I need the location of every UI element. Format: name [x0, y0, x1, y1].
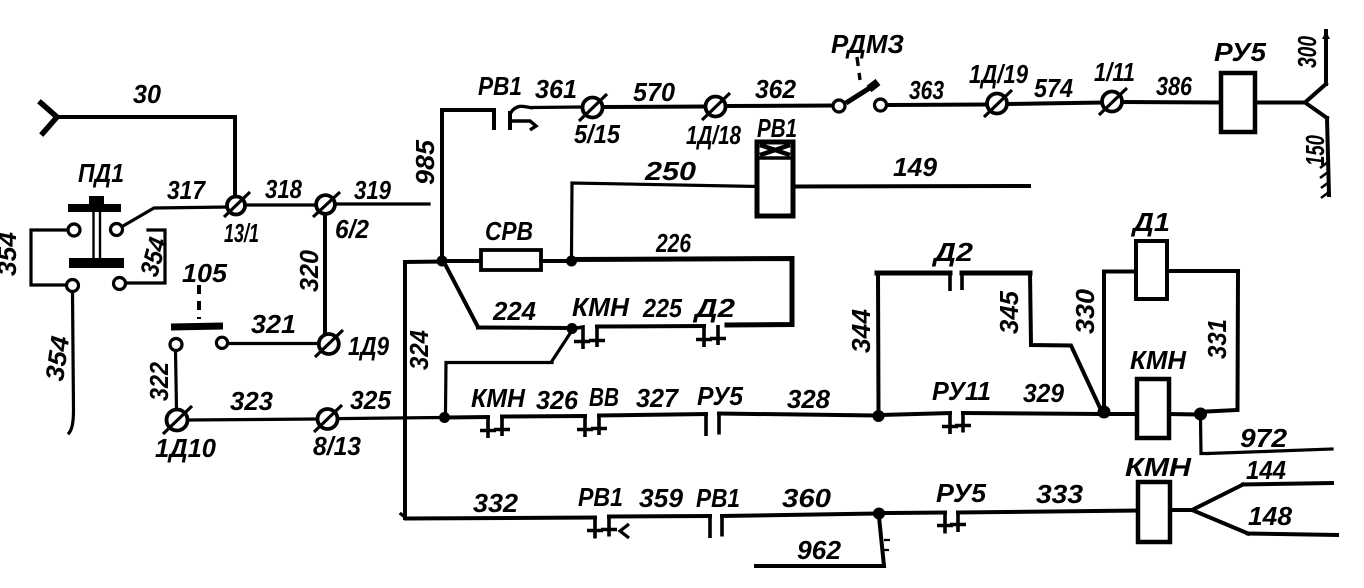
- relay Д1 box: [1136, 241, 1167, 299]
- label Д2 bracket: [932, 237, 974, 267]
- label wire 327: [636, 383, 679, 413]
- label wire 326: [536, 385, 579, 415]
- label wire 333: [1036, 479, 1084, 509]
- wire 300: [1322, 31, 1330, 84]
- label wire 319: [354, 175, 391, 205]
- label wire 322: [144, 362, 174, 401]
- switch 105 dashed link: [197, 285, 201, 319]
- svg-text:322: 322: [144, 362, 174, 401]
- wire 324 vertical: [405, 262, 442, 519]
- wire 317: [123, 207, 227, 226]
- label wire 300: [1292, 36, 1322, 68]
- label terminal 1/11: [1094, 57, 1135, 87]
- wire 149: [793, 184, 1029, 189]
- label wire 329: [1023, 378, 1065, 408]
- label wire 224: [492, 296, 537, 326]
- label wire 149: [893, 152, 938, 182]
- svg-text:РУ11: РУ11: [932, 376, 991, 406]
- terminal 8/13: [314, 405, 342, 432]
- label wire 344: [846, 308, 876, 353]
- pin 105 right: [216, 337, 227, 348]
- label wire 330: [1070, 288, 1100, 334]
- label wire 359: [639, 483, 684, 513]
- wire 322: [176, 351, 177, 409]
- wire 362: [726, 104, 833, 109]
- svg-text:РУ5: РУ5: [1214, 37, 1267, 67]
- svg-text:РДМЗ: РДМЗ: [831, 29, 904, 59]
- svg-text:КМН: КМН: [471, 383, 526, 413]
- label terminal 1Д10: [155, 433, 217, 463]
- wire 972: [1201, 419, 1333, 454]
- wire 226 loop: [572, 259, 792, 326]
- svg-text:326: 326: [536, 385, 579, 415]
- contact КМН 326: [480, 416, 510, 438]
- label РВ1 row4 second: [696, 483, 740, 513]
- resistor СРВ: [481, 250, 541, 270]
- switch ПД1 (knife symbol): [68, 196, 124, 268]
- svg-text:972: 972: [1240, 423, 1288, 453]
- junction node 962/360: [873, 508, 885, 520]
- svg-text:Д1: Д1: [1131, 207, 1170, 237]
- node fork 300/150: [1305, 84, 1327, 118]
- label ПД1: [78, 158, 124, 188]
- wire 330 vertical: [1102, 272, 1106, 411]
- junction node 972: [1194, 408, 1207, 421]
- wire 344 vertical: [876, 273, 881, 411]
- pin ПД1 upper-right: [111, 224, 123, 236]
- label wire 317: [167, 175, 206, 205]
- svg-text:РУ5: РУ5: [936, 478, 987, 508]
- svg-text:360: 360: [782, 483, 832, 513]
- svg-text:359: 359: [639, 483, 684, 513]
- label РДМЗ: [831, 29, 904, 59]
- switch 105 contact bar: [171, 323, 223, 331]
- svg-text:1Д/18: 1Д/18: [686, 120, 741, 150]
- contact РУ5 row4: [937, 512, 966, 534]
- wire to КМН contact row3: [448, 415, 488, 420]
- wire 321: [228, 342, 318, 345]
- wire 354 tail down: [69, 292, 74, 433]
- wire 354 right bracket: [126, 230, 165, 283]
- svg-text:329: 329: [1023, 378, 1065, 408]
- svg-text:574: 574: [1034, 73, 1073, 103]
- wire 331 vertical: [1206, 271, 1238, 412]
- label 354 left: [0, 231, 22, 276]
- label РУ5 row3: [697, 381, 744, 411]
- wire 150: [1320, 118, 1329, 198]
- wire 329: [963, 413, 1100, 414]
- wire diagonal 224 node down: [446, 332, 572, 412]
- contact РУ5 row3: [706, 414, 719, 437]
- svg-text:386: 386: [1156, 71, 1192, 101]
- wire 332: [401, 514, 595, 519]
- label wire 320: [294, 249, 324, 292]
- switch РДМЗ pin left: [833, 100, 845, 112]
- relay КМН box row4: [1138, 482, 1170, 542]
- label РУ5 top: [1214, 37, 1267, 67]
- svg-text:250: 250: [644, 156, 697, 186]
- svg-text:СРВ: СРВ: [485, 216, 533, 246]
- wire 224: [478, 326, 568, 331]
- wire 386: [1123, 100, 1221, 105]
- svg-text:13/1: 13/1: [224, 218, 259, 248]
- svg-text:РВ1: РВ1: [578, 482, 623, 512]
- relay КМН box row3: [1137, 379, 1169, 438]
- wire 320: [323, 214, 327, 334]
- svg-text:Д2: Д2: [932, 237, 974, 267]
- svg-text:224: 224: [492, 296, 537, 326]
- svg-text:320: 320: [294, 249, 324, 292]
- wire row3 РУ11 segment: [882, 413, 950, 415]
- label РВ1 top contact: [478, 71, 522, 101]
- svg-text:РУ5: РУ5: [697, 381, 744, 411]
- label wire 321: [251, 309, 296, 339]
- svg-text:1/11: 1/11: [1094, 57, 1135, 87]
- label wire 386: [1156, 71, 1192, 101]
- label wire 150: [1300, 135, 1330, 166]
- wire 323: [188, 419, 317, 420]
- wire 574: [1008, 103, 1102, 105]
- wire 985 vertical: [440, 110, 444, 257]
- contact Д2 bracket top: [877, 273, 1030, 291]
- wire Д1 left lead: [1104, 270, 1136, 274]
- label terminal 1Д/19: [969, 59, 1028, 89]
- label wire 250: [644, 156, 697, 186]
- svg-text:328: 328: [787, 384, 831, 414]
- svg-text:1Д10: 1Д10: [155, 433, 217, 463]
- wire 962: [756, 517, 890, 566]
- terminal 1Д/18: [702, 93, 730, 120]
- label wire 323: [230, 386, 274, 416]
- label wire 226: [655, 228, 691, 258]
- label КМН (225 row): [572, 292, 630, 322]
- contact Д2 (225 row): [696, 325, 726, 347]
- svg-text:149: 149: [893, 152, 938, 182]
- label wire 225: [642, 293, 682, 323]
- label wire 331: [1202, 319, 1232, 359]
- wire 326: [502, 414, 585, 419]
- svg-text:225: 225: [642, 293, 682, 323]
- switch РДМЗ blade: [846, 82, 878, 103]
- label wire 361: [535, 74, 577, 104]
- svg-text:319: 319: [354, 175, 391, 205]
- svg-text:318: 318: [265, 174, 302, 204]
- wire 225: [597, 324, 704, 329]
- svg-text:8/13: 8/13: [313, 431, 362, 461]
- svg-text:КМН: КМН: [572, 292, 630, 322]
- terminal 5/15: [579, 94, 607, 121]
- label terminal 1Д/18: [686, 120, 741, 150]
- contact РУ11: [942, 413, 971, 435]
- label ВВ: [589, 382, 619, 412]
- label terminal 1Д9: [348, 331, 389, 361]
- svg-text:РВ1: РВ1: [757, 113, 797, 143]
- wire 250 riser: [572, 183, 758, 256]
- label 354 tail: [39, 334, 75, 383]
- svg-text:226: 226: [655, 228, 691, 258]
- label wire 325: [350, 385, 392, 415]
- label wire 360: [782, 483, 832, 513]
- terminal 1/11: [1099, 88, 1127, 115]
- valve РВ1 box: [757, 142, 793, 216]
- svg-text:325: 325: [350, 385, 392, 415]
- junction node 250/226: [566, 256, 577, 267]
- label wire 144: [1246, 455, 1286, 485]
- svg-text:Д2: Д2: [693, 293, 736, 323]
- svg-text:327: 327: [636, 383, 679, 413]
- label wire 324: [404, 330, 434, 370]
- wire 30: [57, 117, 235, 196]
- svg-text:317: 317: [167, 175, 206, 205]
- label wire 962: [797, 535, 842, 565]
- wire РУ5 to fork: [1255, 101, 1305, 105]
- wire diagonal junction to 224: [445, 264, 478, 327]
- contact КМН (225 row): [574, 327, 605, 349]
- svg-text:5/15: 5/15: [574, 119, 620, 149]
- terminal 1Д/19: [984, 90, 1012, 117]
- label РВ1 valve: [757, 113, 797, 143]
- label РУ5 row4: [936, 478, 987, 508]
- wire 148: [1248, 534, 1337, 536]
- wire 360: [722, 514, 875, 517]
- wire Д1 right lead: [1167, 269, 1238, 273]
- svg-text:РВ1: РВ1: [696, 483, 740, 513]
- contact ВВ 327: [577, 415, 607, 437]
- svg-text:321: 321: [251, 309, 296, 339]
- junction node 985/СРВ: [437, 256, 448, 267]
- svg-text:363: 363: [909, 75, 944, 105]
- contact РВ1 row4 first: [587, 517, 629, 539]
- switch РДМЗ dashed link: [857, 57, 860, 80]
- label Д1: [1131, 207, 1170, 237]
- svg-text:570: 570: [633, 77, 676, 107]
- label wire 363: [909, 75, 944, 105]
- svg-text:344: 344: [846, 308, 876, 353]
- svg-text:331: 331: [1202, 319, 1232, 359]
- wire 328: [719, 414, 875, 416]
- wire 325: [338, 418, 441, 419]
- svg-text:333: 333: [1036, 479, 1084, 509]
- label terminal 6/2: [335, 214, 369, 244]
- svg-text:354: 354: [0, 231, 22, 276]
- svg-text:323: 323: [230, 386, 274, 416]
- wire 318: [245, 203, 316, 206]
- label wire 985: [410, 139, 440, 185]
- pin ПД1 upper-left: [68, 224, 80, 236]
- svg-text:354: 354: [39, 334, 75, 383]
- node arrow left (wire 30 source fork): [41, 103, 57, 133]
- label КМН row3: [471, 383, 526, 413]
- svg-text:КМН: КМН: [1125, 452, 1192, 482]
- label terminal 13/1: [224, 218, 259, 248]
- label 354 right: [134, 234, 173, 280]
- svg-text:ВВ: ВВ: [589, 382, 619, 412]
- wire 570: [603, 105, 705, 110]
- pin ПД1 lower-right: [114, 278, 126, 290]
- terminal 6/2: [313, 192, 340, 217]
- svg-text:105: 105: [182, 258, 228, 288]
- wire 361: [533, 105, 581, 109]
- wire 144: [1243, 483, 1332, 485]
- wire КМН to fork: [1170, 508, 1192, 512]
- junction node 324/325 row: [439, 412, 450, 423]
- switch РДМЗ pin right: [875, 99, 887, 111]
- node fork 144/148: [1192, 485, 1248, 534]
- svg-text:148: 148: [1248, 501, 1293, 531]
- svg-text:30: 30: [133, 79, 162, 109]
- label Д2 (225 row): [693, 293, 736, 323]
- relay РУ5 box top: [1221, 73, 1255, 132]
- label wire 148: [1248, 501, 1293, 531]
- wire 333: [958, 511, 1138, 513]
- wire 363: [887, 103, 986, 108]
- junction node 224/КМН: [567, 323, 578, 334]
- svg-text:6/2: 6/2: [335, 214, 369, 244]
- svg-text:РВ1: РВ1: [478, 71, 522, 101]
- svg-text:1Д9: 1Д9: [348, 331, 389, 361]
- label РВ1 row4 first: [578, 482, 623, 512]
- svg-text:324: 324: [404, 330, 434, 370]
- wire СРВ right lead: [541, 259, 568, 263]
- label СРВ: [485, 216, 533, 246]
- label wire 328: [787, 384, 831, 414]
- svg-text:332: 332: [473, 488, 519, 518]
- svg-text:361: 361: [535, 74, 577, 104]
- label РУ11: [932, 376, 991, 406]
- svg-text:150: 150: [1300, 135, 1330, 166]
- terminal 1Д9: [315, 330, 343, 357]
- pin ПД1 lower-left: [67, 280, 79, 292]
- contact РВ1 time-delay (hook): [510, 106, 536, 130]
- label wire 574: [1034, 73, 1073, 103]
- label КМН mid: [1130, 345, 1187, 375]
- label wire 345: [994, 290, 1024, 334]
- wire 354 left bracket: [31, 230, 67, 285]
- label wire 30: [133, 79, 162, 109]
- svg-text:144: 144: [1246, 455, 1286, 485]
- svg-text:ПД1: ПД1: [78, 158, 124, 188]
- contact РВ1 row4 second: [710, 516, 722, 539]
- wire to РУ5 row4: [883, 511, 945, 516]
- svg-text:962: 962: [797, 535, 842, 565]
- label wire 332: [473, 488, 519, 518]
- svg-text:330: 330: [1070, 288, 1100, 334]
- terminal 1Д10: [163, 406, 192, 434]
- wire 319: [335, 202, 429, 205]
- svg-text:1Д/19: 1Д/19: [969, 59, 1028, 89]
- wire top to РВ1 contact: [442, 110, 494, 128]
- junction node 344/328: [873, 410, 885, 422]
- svg-text:КМН: КМН: [1130, 345, 1187, 375]
- svg-text:985: 985: [410, 139, 440, 185]
- label terminal 5/15: [574, 119, 620, 149]
- label wire 362: [755, 74, 797, 104]
- svg-text:345: 345: [994, 290, 1024, 334]
- wire 359: [609, 514, 710, 519]
- label wire 972: [1240, 423, 1288, 453]
- wire 345: [1030, 273, 1101, 410]
- label wire 318: [265, 174, 302, 204]
- svg-text:300: 300: [1292, 36, 1322, 68]
- label КМН bottom: [1125, 452, 1192, 482]
- wire СРВ left lead: [445, 259, 481, 263]
- junction node 330/329: [1098, 406, 1111, 419]
- wire 327: [599, 414, 706, 416]
- label wire 570: [633, 77, 676, 107]
- svg-text:362: 362: [755, 74, 797, 104]
- pin 105 left: [170, 339, 182, 351]
- wire row3 КМН leads: [1108, 412, 1197, 417]
- label 105: [182, 258, 228, 288]
- terminal 13/1: [224, 192, 250, 217]
- label terminal 8/13: [313, 431, 362, 461]
